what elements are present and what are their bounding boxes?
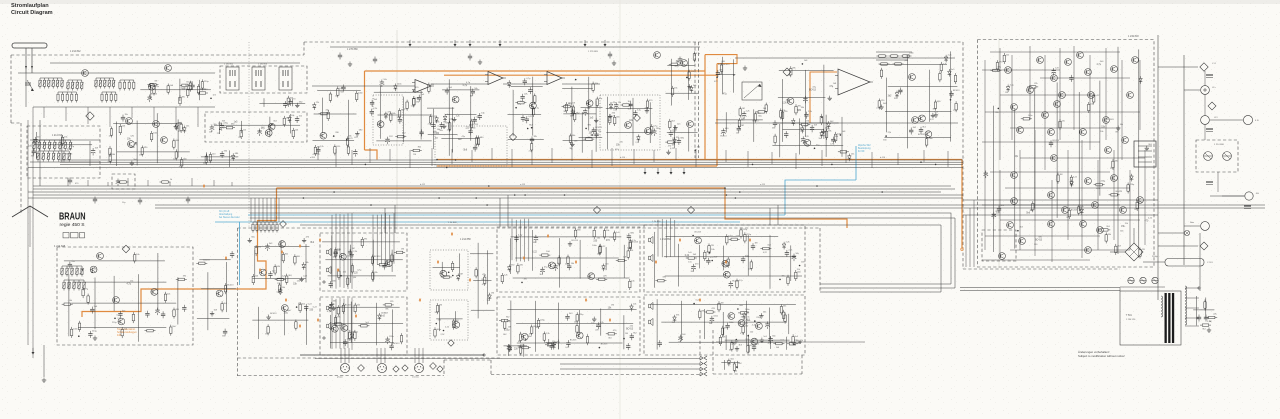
transistor Q73 [1137,197,1144,204]
test point P12 [448,340,454,346]
resistor R119 [267,324,269,335]
capacitor C205 [678,57,683,65]
wire decoder rail lower [30,161,100,163]
capacitor C90 [566,340,570,347]
wire branch of AM IF module [269,117,271,138]
transistor Q16 [90,266,97,273]
wire branch of tone module R [350,302,352,343]
wire right drop 2 [969,208,971,267]
wire branch of phono preamp [177,277,179,324]
wire power amp cross rail [1040,77,1130,79]
wire power amp rail [1081,140,1083,258]
lamp LA1 pilot [1184,230,1189,235]
resistor R49 [476,135,478,146]
svg-text:1M: 1M [719,70,722,72]
transistor Q75 [1059,92,1066,99]
svg-text:47µ: 47µ [723,94,728,96]
node [91,272,93,274]
capacitor C67 [68,262,72,269]
wire rail of switch cell R [436,318,462,320]
resistor R53 [530,141,532,152]
wire branch of output module L [769,235,771,289]
wire branch of tuner IF strip [199,80,201,100]
svg-text:BC413: BC413 [723,64,730,66]
wire branch of output module R [680,301,682,341]
resistor R213 [1099,229,1110,231]
resistor R159 [539,254,550,256]
node [114,318,116,320]
bus wire 5 [33,185,951,187]
audio jack monitor L [649,254,653,261]
dashed boundary step top [444,359,491,361]
wire bundle tone R feed [343,299,345,349]
svg-text:Subject to modification withou: Subject to modification without notice! [1078,354,1125,358]
bus wire 3 [60,163,963,165]
wire stage drop 2 [335,149,337,167]
ground [174,124,178,129]
svg-text:47µ: 47µ [829,86,834,88]
wire stage drop 18 [653,150,655,162]
resistor R148 [452,319,454,330]
wire branch of interstage parts A [432,109,434,149]
resistor R204 [742,324,744,335]
wire ground drop [43,345,45,377]
node [340,275,342,277]
wire rail of filter stage [508,139,544,141]
terminal tap 1 [1198,287,1200,289]
wire rail of summing stage [783,129,825,131]
transistor Q42 [1088,92,1095,99]
node [736,339,738,341]
resistor R44 [429,114,431,125]
node [135,142,137,144]
svg-text:1M: 1M [611,305,614,307]
ground [1145,146,1149,151]
wire branch of filter module L [605,247,607,270]
polarity bars 4 [1244,206,1251,209]
wire bundle output feed [670,218,672,256]
highlight wire orange vertical B [716,64,718,166]
audio jack monitor R [649,318,653,325]
resistor R63 [609,114,611,125]
capacitor C95 [626,343,630,350]
wire band stub 4 [127,178,129,186]
wire branch of feedback network [798,118,800,154]
dotted box switch cell L [430,250,468,290]
transistor T231 [909,74,916,81]
svg-text:56k: 56k [574,321,577,323]
resistor array decoder lower [36,151,71,162]
capacitor C40 [629,102,633,109]
node [259,130,261,132]
wire band stub 9 [231,182,233,186]
resistor R139 [337,305,339,316]
resistor R194 [699,309,701,320]
svg-text:1 276 883: 1 276 883 [588,51,599,53]
transistor Q36 [738,320,745,327]
wire drop to module [507,195,509,227]
capacitor C512 [1197,315,1201,322]
capacitor C91 [508,345,512,352]
wire power amp cross rail [1000,94,1095,96]
dashed boundary bottom inner [238,357,501,359]
wire branch of buffer stage [206,152,208,161]
wire bundle output feed [657,220,659,257]
audio jack tape L [327,248,331,255]
resistor R181 [729,238,740,240]
wire drop to module [499,198,501,227]
svg-text:phono: phono [337,377,343,379]
capacitor C77 [334,249,338,256]
antenna bar [12,43,47,48]
fuse Si501 [1128,277,1134,283]
svg-text:1M: 1M [491,293,494,295]
resistor R190 [760,247,771,249]
svg-text:220µ: 220µ [389,336,394,338]
wire stage drop 15 [591,150,593,168]
resistor R175 [504,320,506,331]
resistor R234 [1206,316,1217,318]
node [452,275,454,277]
wire bundle drop 3 [258,198,260,222]
resistor R88 [838,151,849,153]
transistor Q46 [1011,172,1018,179]
wire drop to module [394,205,396,233]
resistor R197 [780,304,782,315]
resistor R171 [499,319,510,321]
wire left riser C [39,120,41,186]
resistor R68 [669,63,680,65]
svg-text:47µ: 47µ [482,275,487,277]
wire branch of filter module R [600,309,602,336]
wire rail of interstage parts B [579,136,603,138]
signal marker [225,257,227,260]
wire rail of summing stage [778,97,826,99]
wire branch of output module R [769,308,771,342]
capacitor C23 [417,95,421,102]
svg-text:BC413: BC413 [1035,240,1043,242]
resistor R187 [740,228,742,239]
svg-text:BC413: BC413 [227,285,234,287]
resistor R42 [413,96,415,107]
wire decoder rail [30,139,100,141]
wire rail of tuner right parts [259,102,305,104]
bus wire 11 [155,207,1265,209]
resistor R233 [1078,205,1080,216]
capacitor C85 [627,233,631,240]
wire branch of phono preamp [94,278,96,330]
antenna lead wire [25,48,27,73]
resistor R126 [371,255,373,266]
node [779,279,781,281]
transistor Q22 [339,253,346,260]
wire branch of record amplifier lower [257,307,259,339]
diode D21 [673,137,677,145]
wire branch of power amplifier parts [1138,49,1140,257]
ground [478,60,482,65]
electrolytic capacitor C14 [353,149,358,157]
signal marker [679,239,681,242]
dashed boundary connector left [699,330,701,376]
diode D26 [456,274,460,282]
note Anderungen vorbehalten [1078,350,1125,358]
transistor Q49 [1048,192,1055,199]
capacitor C16 [316,147,320,154]
highlight wire orange loop bottom [437,165,717,167]
resistor R168 [629,239,631,250]
wire tuner drop 3 [87,107,89,124]
dashed boundary headphone bottom [713,373,802,375]
test point P3 [593,206,600,213]
transformer core bar 1 [1165,293,1167,343]
wire branch of filter module L [510,238,512,274]
resistor R191 [726,234,728,245]
wire band stub 5 [147,180,149,186]
resistor R124 [196,262,207,264]
wire bundle tone R feed [335,299,337,349]
resistor R243 [901,55,912,57]
svg-text:2,2k: 2,2k [117,318,121,320]
resistor R177 [531,325,533,336]
electrolytic capacitor C97 [691,264,696,272]
svg-text:100n: 100n [592,245,596,247]
wire rail of balance stage [716,119,763,121]
transistor Q35 [728,313,735,320]
node orange junction [436,159,438,161]
electrolytic capacitor C73 [278,288,283,296]
resistor R198 [718,301,720,312]
resistor R84 [954,73,956,84]
wire rail of preamp stage B [442,89,479,91]
fuse Si503 [1152,277,1158,283]
svg-text:2200µ: 2200µ [1152,256,1159,258]
transistor Q44 [1048,129,1055,136]
wire power amp rail [1051,180,1053,262]
wire bundle mid feed [385,213,387,263]
resistor R19 [173,139,175,150]
wire power amp rail [1139,60,1141,130]
ground [645,108,649,113]
wire power amp cross rail [982,259,1090,261]
wire stage drop r5 [821,150,823,166]
resistor R91 [820,114,822,125]
resistor R90 [774,134,776,145]
diode D35 [552,342,556,350]
resistor R215 [1139,248,1141,259]
dashed boundary tuner left lower [20,123,22,213]
capacitor C20 [370,100,374,107]
wire branch of preamp stage A [420,91,422,140]
transistor T221 [625,122,632,129]
wire chevron drop [29,206,31,247]
electrolytic capacitor C3 [257,129,262,137]
resistor R149 [436,303,438,314]
resistor R217 [1027,86,1038,88]
highlight wire orange right drop [961,160,963,249]
ground [302,238,306,243]
wire branch of tone control stage [649,102,651,143]
resistor R102 [176,278,187,280]
wire rail of filter module L [513,277,630,279]
wire branch of input stage [348,100,350,146]
resistor R134 [347,276,349,287]
wire rail of stereo decoder [34,144,92,146]
svg-text:BC413: BC413 [743,319,751,321]
wire rail of tone module L [322,241,400,243]
wire power amp rail [1044,55,1046,170]
capacitor C99 [741,256,745,263]
node bus junction [438,197,440,199]
resistor array tuner lower B [101,92,117,103]
wire rail of output filter stage [879,63,947,65]
resistor R135 [354,330,356,341]
resistor R106 [134,252,136,263]
capacitor C32 [523,78,527,85]
capacitor C48 [898,88,902,95]
transistor Q31 [723,271,730,278]
wire stage drop 8 [451,149,453,164]
svg-text:1M: 1M [413,154,416,156]
resistor array eq upper [60,266,84,277]
dashed box phono preamp module [57,247,193,345]
transistor Q67 [1097,227,1104,234]
svg-text:1M: 1M [508,327,511,329]
test point P6 [280,221,287,228]
wire rail of buffer stage [201,156,238,158]
resistor R166 [629,240,631,251]
wire branch of secondary load parts [1205,298,1207,319]
svg-text:22k: 22k [238,137,241,139]
resistor R111 [255,245,257,256]
transistor Q32 [722,260,729,267]
op-amp U203 [544,72,565,85]
resistor R48 [470,119,472,130]
resistor R129 [338,269,340,280]
electrolytic capacitor C98 [729,281,734,289]
dotted box preamp cell [373,95,403,145]
node bus junction [455,159,457,161]
wire branch of output module R [788,314,790,334]
wire power amp cross rail [982,141,1100,143]
node [736,366,738,368]
resistor R156 [558,255,560,266]
svg-text:220µ: 220µ [504,330,510,332]
wire rail of tone module L [328,275,396,277]
svg-text:b 416: b 416 [880,157,886,159]
resistor R40 [413,96,415,107]
wire fuse rail [1120,286,1165,288]
capacitor C57 [669,130,673,137]
transistor Q13 [687,121,694,128]
node bus junction [370,204,372,206]
wire branch of AM IF module [240,121,242,133]
resistor R9 [147,84,158,86]
svg-text:22k: 22k [996,213,999,215]
wire stage drop r7 [871,152,873,168]
wire branch of output module R [746,301,748,347]
ground [666,150,670,155]
node bus junction [303,197,305,199]
capacitor C92 [565,314,569,321]
svg-text:BC413: BC413 [345,304,352,306]
wire rail of filter stage B [563,139,593,141]
wire bundle tone L feed [335,214,337,289]
node bus junction [881,191,883,193]
wire rail of output filter stage [885,111,951,113]
transistor Q40 [1054,101,1061,108]
diode D7 [394,84,398,92]
wire branch of power amplifier parts [1034,87,1036,208]
resistor array RA2 [66,80,83,91]
dotted separation line [248,42,250,228]
wire rail of record amplifier [254,245,309,247]
capacitor C115 [1069,75,1073,82]
resistor R3 [179,95,181,106]
resistor R5 [167,84,169,95]
resistor R211 [545,344,556,346]
node [694,150,696,152]
wire branch of record amplifier [254,250,256,277]
svg-text:BC413: BC413 [393,343,400,345]
svg-text:BC413: BC413 [601,344,608,346]
wire rail of interstage parts A [427,107,454,109]
polarity bars 2 [1206,129,1213,132]
wire branch of tone module R [329,315,331,349]
resistor R245 [893,63,904,65]
resistor R47 [477,136,479,147]
wire rail of filter module L [515,257,619,259]
wire supply bend [1119,288,1121,292]
wire to test point [1158,245,1198,247]
resistor R151 [160,181,171,183]
diode D33 [742,312,746,320]
dashed boundary main step [303,42,305,55]
svg-text:BC413: BC413 [270,313,277,315]
wire tuner drop 8 [197,107,199,127]
dashed boundary bottom outer [238,375,445,377]
svg-text:2,2k: 2,2k [876,108,880,110]
wire branch of switch cell L [441,262,443,276]
resistor R140 [358,325,369,327]
electrolytic capacitor C53 [801,136,806,144]
bus wire 4 [28,167,963,169]
transistor Q1 [148,83,155,90]
resistor R202 [784,313,786,324]
node [1017,230,1019,232]
resistor R174 [576,323,578,334]
capacitor C106 [725,323,729,330]
dashed boundary bottom-left [237,228,239,376]
note blue annotation right [858,144,871,153]
transistor Q9 [787,98,794,105]
wire [25,73,27,107]
resistor R152 [603,228,605,239]
wire branch of filter module R [558,303,560,350]
node bus junction [735,197,737,199]
connector pin X16 [604,40,607,47]
wire headphone to supply [800,341,865,343]
highlight wire blue link [785,180,856,215]
wire lamp feed [1158,232,1184,234]
capacitor C96 [706,258,710,265]
transistor Q39 [1051,75,1058,82]
svg-text:BC413: BC413 [1071,210,1078,212]
ground [612,61,616,66]
capacitor C155 [186,197,190,204]
wire branch of interstage parts B [581,112,583,153]
wire stage drop r9 [923,150,925,162]
electrolytic capacitor C22 [380,80,385,88]
